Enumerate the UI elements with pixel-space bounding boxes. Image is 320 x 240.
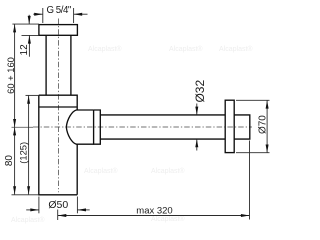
- svg-text:Ø32: Ø32: [193, 80, 207, 103]
- dim 60 + 160: [5, 24, 16, 127]
- svg-text:(125): (125): [18, 142, 29, 164]
- dim O50: [26, 197, 89, 214]
- outlet pipe: [100, 114, 225, 116]
- shared extension line at flange top: [12, 23, 39, 25]
- vertical centerline (body axis): [57, 19, 59, 193]
- svg-text:Alcaplast®: Alcaplast®: [219, 45, 253, 53]
- bottom extension line: [12, 194, 39, 196]
- elbow cone: [66, 110, 93, 144]
- svg-text:12: 12: [19, 44, 30, 56]
- svg-text:Alcaplast®: Alcaplast®: [84, 167, 118, 175]
- top nut (flange): [39, 25, 78, 36]
- body cup outline: [39, 95, 77, 195]
- svg-text:Ø50: Ø50: [48, 199, 68, 211]
- dim O70: [236, 100, 270, 152]
- cone nut ring: [94, 110, 101, 144]
- vertical tube wall right: [70, 35, 72, 95]
- svg-text:Alcaplast®: Alcaplast®: [169, 45, 203, 53]
- dim 12: [19, 15, 39, 57]
- horizontal centerline (outlet axis): [12, 126, 34, 128]
- watermark: [11, 45, 253, 224]
- svg-text:60 + 160: 60 + 160: [5, 57, 16, 94]
- svg-text:Alcaplast®: Alcaplast®: [88, 45, 122, 53]
- dim max 320: [58, 141, 250, 221]
- vertical tube wall left: [45, 35, 47, 95]
- pipe end beyond flange: [234, 115, 250, 139]
- svg-text:Ø70: Ø70: [257, 115, 268, 134]
- dim 80: [4, 127, 16, 194]
- collar bottom line: [39, 106, 77, 108]
- dim (125): [18, 95, 39, 194]
- svg-text:Alcaplast®: Alcaplast®: [11, 216, 45, 224]
- wall flange rosette: [225, 100, 234, 152]
- svg-text:Alcaplast®: Alcaplast®: [151, 167, 185, 175]
- svg-text:max 320: max 320: [136, 205, 172, 216]
- dim G 5/4": [33, 5, 87, 23]
- svg-text:80: 80: [4, 155, 15, 167]
- svg-text:G 5/4": G 5/4": [46, 5, 71, 16]
- dim O32: [193, 80, 207, 151]
